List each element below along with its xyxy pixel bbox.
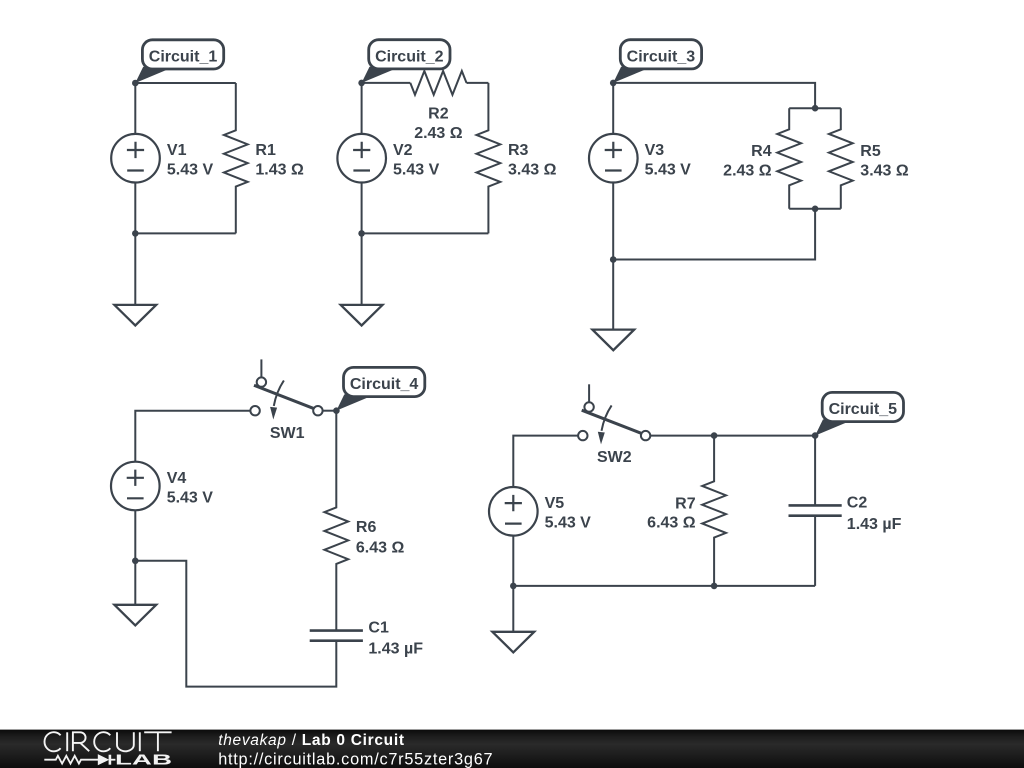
svg-text:SW1: SW1	[270, 425, 305, 442]
svg-text:thevakap / Lab 0 Circuit: thevakap / Lab 0 Circuit	[218, 732, 405, 749]
capacitor C2	[789, 436, 842, 586]
svg-text:R6: R6	[356, 519, 377, 536]
node top-left circuit 2	[358, 80, 365, 87]
resistor R6	[324, 411, 348, 631]
node bottom-left circuit 3	[610, 256, 617, 263]
svg-text:5.43 V: 5.43 V	[167, 489, 214, 506]
wire V5 bottom lead	[512, 536, 514, 586]
wire ground stem circuit 3	[612, 260, 614, 330]
CircuitLab logo wordmark CIRCUIT	[45, 732, 172, 751]
wire SW1 to node	[323, 410, 337, 412]
svg-text:C2: C2	[847, 495, 868, 512]
wire V3 bottom lead	[612, 182, 614, 259]
wire ground stem circuit 2	[361, 233, 363, 305]
node bottom-left circuit 4	[132, 558, 139, 565]
label bubble Circuit_4	[336, 367, 424, 410]
label C1 1.43 uF	[368, 619, 423, 657]
label V4 5.43 V	[167, 470, 214, 506]
footer bar background	[0, 730, 1024, 768]
label bubble Circuit_5	[815, 392, 903, 435]
capacitor C1	[310, 631, 363, 641]
wire SW2 to C2 branch	[650, 435, 815, 437]
label bubble Circuit_3	[613, 40, 701, 83]
wire ground stem circuit 5	[512, 586, 514, 632]
label R6 6.43 ohm	[356, 519, 405, 557]
switch SW2	[578, 384, 650, 444]
svg-text:C1: C1	[368, 619, 389, 636]
label C2 1.43 uF	[847, 495, 902, 533]
svg-text:2.43 Ω: 2.43 Ω	[414, 125, 463, 142]
label V1 5.43 V	[167, 142, 214, 178]
svg-text:V2: V2	[393, 142, 413, 159]
node R7 bottom	[711, 583, 718, 590]
node top-left circuit 1	[132, 80, 139, 87]
wire bottom rail circuit 5	[513, 585, 815, 587]
svg-text:Circuit_5: Circuit_5	[829, 401, 898, 418]
svg-text:1.43 µF: 1.43 µF	[847, 516, 902, 533]
svg-text:V3: V3	[645, 142, 665, 159]
voltage source V3	[589, 134, 638, 183]
ground circuit 5	[492, 632, 534, 653]
node bottom-left circuit 2	[358, 230, 365, 237]
resistor R4	[777, 108, 801, 209]
wire bottom rail circuit 1	[135, 232, 236, 234]
wire V3 top lead	[612, 83, 614, 134]
node parallel bottom	[812, 206, 819, 213]
wire V4 bottom lead	[134, 510, 136, 561]
svg-text:R5: R5	[860, 143, 881, 160]
resistor R2 (horizontal)	[410, 71, 466, 95]
wire bottom rail circuit 2	[362, 232, 489, 234]
label R1 1.43 ohm	[255, 142, 304, 178]
svg-text:Circuit_2: Circuit_2	[375, 49, 444, 66]
node R7 top	[711, 432, 718, 439]
wire V5 top lead and rail to SW2	[513, 436, 578, 488]
wire V2 top lead	[361, 83, 363, 134]
wire top-left to R2	[362, 82, 411, 84]
wire V4 top lead and rail to SW1	[135, 411, 250, 462]
svg-text:5.43 V: 5.43 V	[393, 162, 440, 179]
svg-text:3.43 Ω: 3.43 Ω	[508, 162, 557, 179]
svg-text:1.43 µF: 1.43 µF	[368, 641, 423, 658]
node top-left circuit 3	[610, 80, 617, 87]
node bottom-left circuit 1	[132, 230, 139, 237]
svg-text:R4: R4	[751, 143, 772, 160]
label R4 2.43 ohm	[723, 143, 772, 179]
svg-text:LAB: LAB	[115, 752, 172, 768]
switch SW1	[250, 359, 322, 419]
wire V1 top lead	[134, 83, 136, 134]
svg-text:5.43 V: 5.43 V	[167, 162, 214, 179]
svg-text:2.43 Ω: 2.43 Ω	[723, 162, 772, 179]
svg-text:Circuit_4: Circuit_4	[350, 376, 419, 393]
label R5 3.43 ohm	[860, 143, 909, 179]
svg-text:V5: V5	[545, 495, 565, 512]
svg-text:Circuit_3: Circuit_3	[627, 49, 696, 66]
label R7 6.43 ohm	[647, 496, 696, 532]
svg-text:R1: R1	[255, 142, 276, 159]
label V5 5.43 V	[545, 495, 592, 531]
wire top rail circuit 3	[613, 83, 815, 108]
svg-text:http://circuitlab.com/c7r55zte: http://circuitlab.com/c7r55zter3g67	[218, 750, 493, 768]
wire V1 bottom lead	[134, 182, 136, 233]
svg-text:V1: V1	[167, 142, 187, 159]
wire C1 bottom return loop	[135, 561, 336, 687]
CircuitLab logo resistor-diode glyph	[44, 755, 115, 765]
voltage source V1	[111, 134, 160, 183]
wire V2 bottom lead	[361, 182, 363, 233]
svg-text:SW2: SW2	[597, 449, 632, 466]
svg-text:5.43 V: 5.43 V	[545, 515, 592, 532]
resistor R7	[702, 436, 726, 586]
ground circuit 2	[341, 305, 383, 326]
svg-text:R7: R7	[675, 496, 696, 513]
voltage source V5	[489, 487, 538, 536]
label R3 3.43 ohm	[508, 142, 557, 178]
node after SW1	[333, 407, 340, 414]
wire bottom return circuit 3	[613, 209, 815, 260]
ground circuit 3	[592, 330, 634, 351]
svg-text:R2: R2	[428, 106, 449, 123]
svg-text:6.43 Ω: 6.43 Ω	[647, 514, 696, 531]
wire parallel bottom bar	[789, 208, 841, 210]
svg-text:5.43 V: 5.43 V	[645, 162, 692, 179]
svg-text:R3: R3	[508, 142, 529, 159]
resistor R3	[477, 83, 501, 234]
ground circuit 4	[114, 605, 156, 626]
wire ground stem circuit 1	[134, 233, 136, 305]
wire parallel top bar	[789, 107, 841, 109]
svg-text:6.43 Ω: 6.43 Ω	[356, 540, 405, 557]
wire ground stem circuit 4	[134, 561, 136, 605]
svg-text:Circuit_1: Circuit_1	[149, 49, 218, 66]
resistor R5	[829, 108, 853, 209]
svg-text:3.43 Ω: 3.43 Ω	[860, 162, 909, 179]
wire R2 to top-right corner	[467, 82, 489, 84]
ground circuit 1	[114, 305, 156, 326]
node C2 top	[812, 432, 819, 439]
node bottom-left circuit 5	[510, 583, 517, 590]
label V2 5.43 V	[393, 142, 440, 178]
label bubble Circuit_1	[135, 40, 223, 83]
svg-text:V4: V4	[167, 470, 187, 487]
voltage source V2	[337, 134, 386, 183]
label V3 5.43 V	[645, 142, 692, 178]
resistor R1	[224, 83, 248, 233]
svg-text:1.43 Ω: 1.43 Ω	[255, 162, 304, 179]
label R2 2.43 ohm	[414, 106, 463, 142]
label bubble Circuit_2	[362, 40, 450, 83]
voltage source V4	[111, 462, 160, 511]
wire top rail circuit 1	[135, 82, 236, 84]
node parallel top	[812, 105, 819, 112]
